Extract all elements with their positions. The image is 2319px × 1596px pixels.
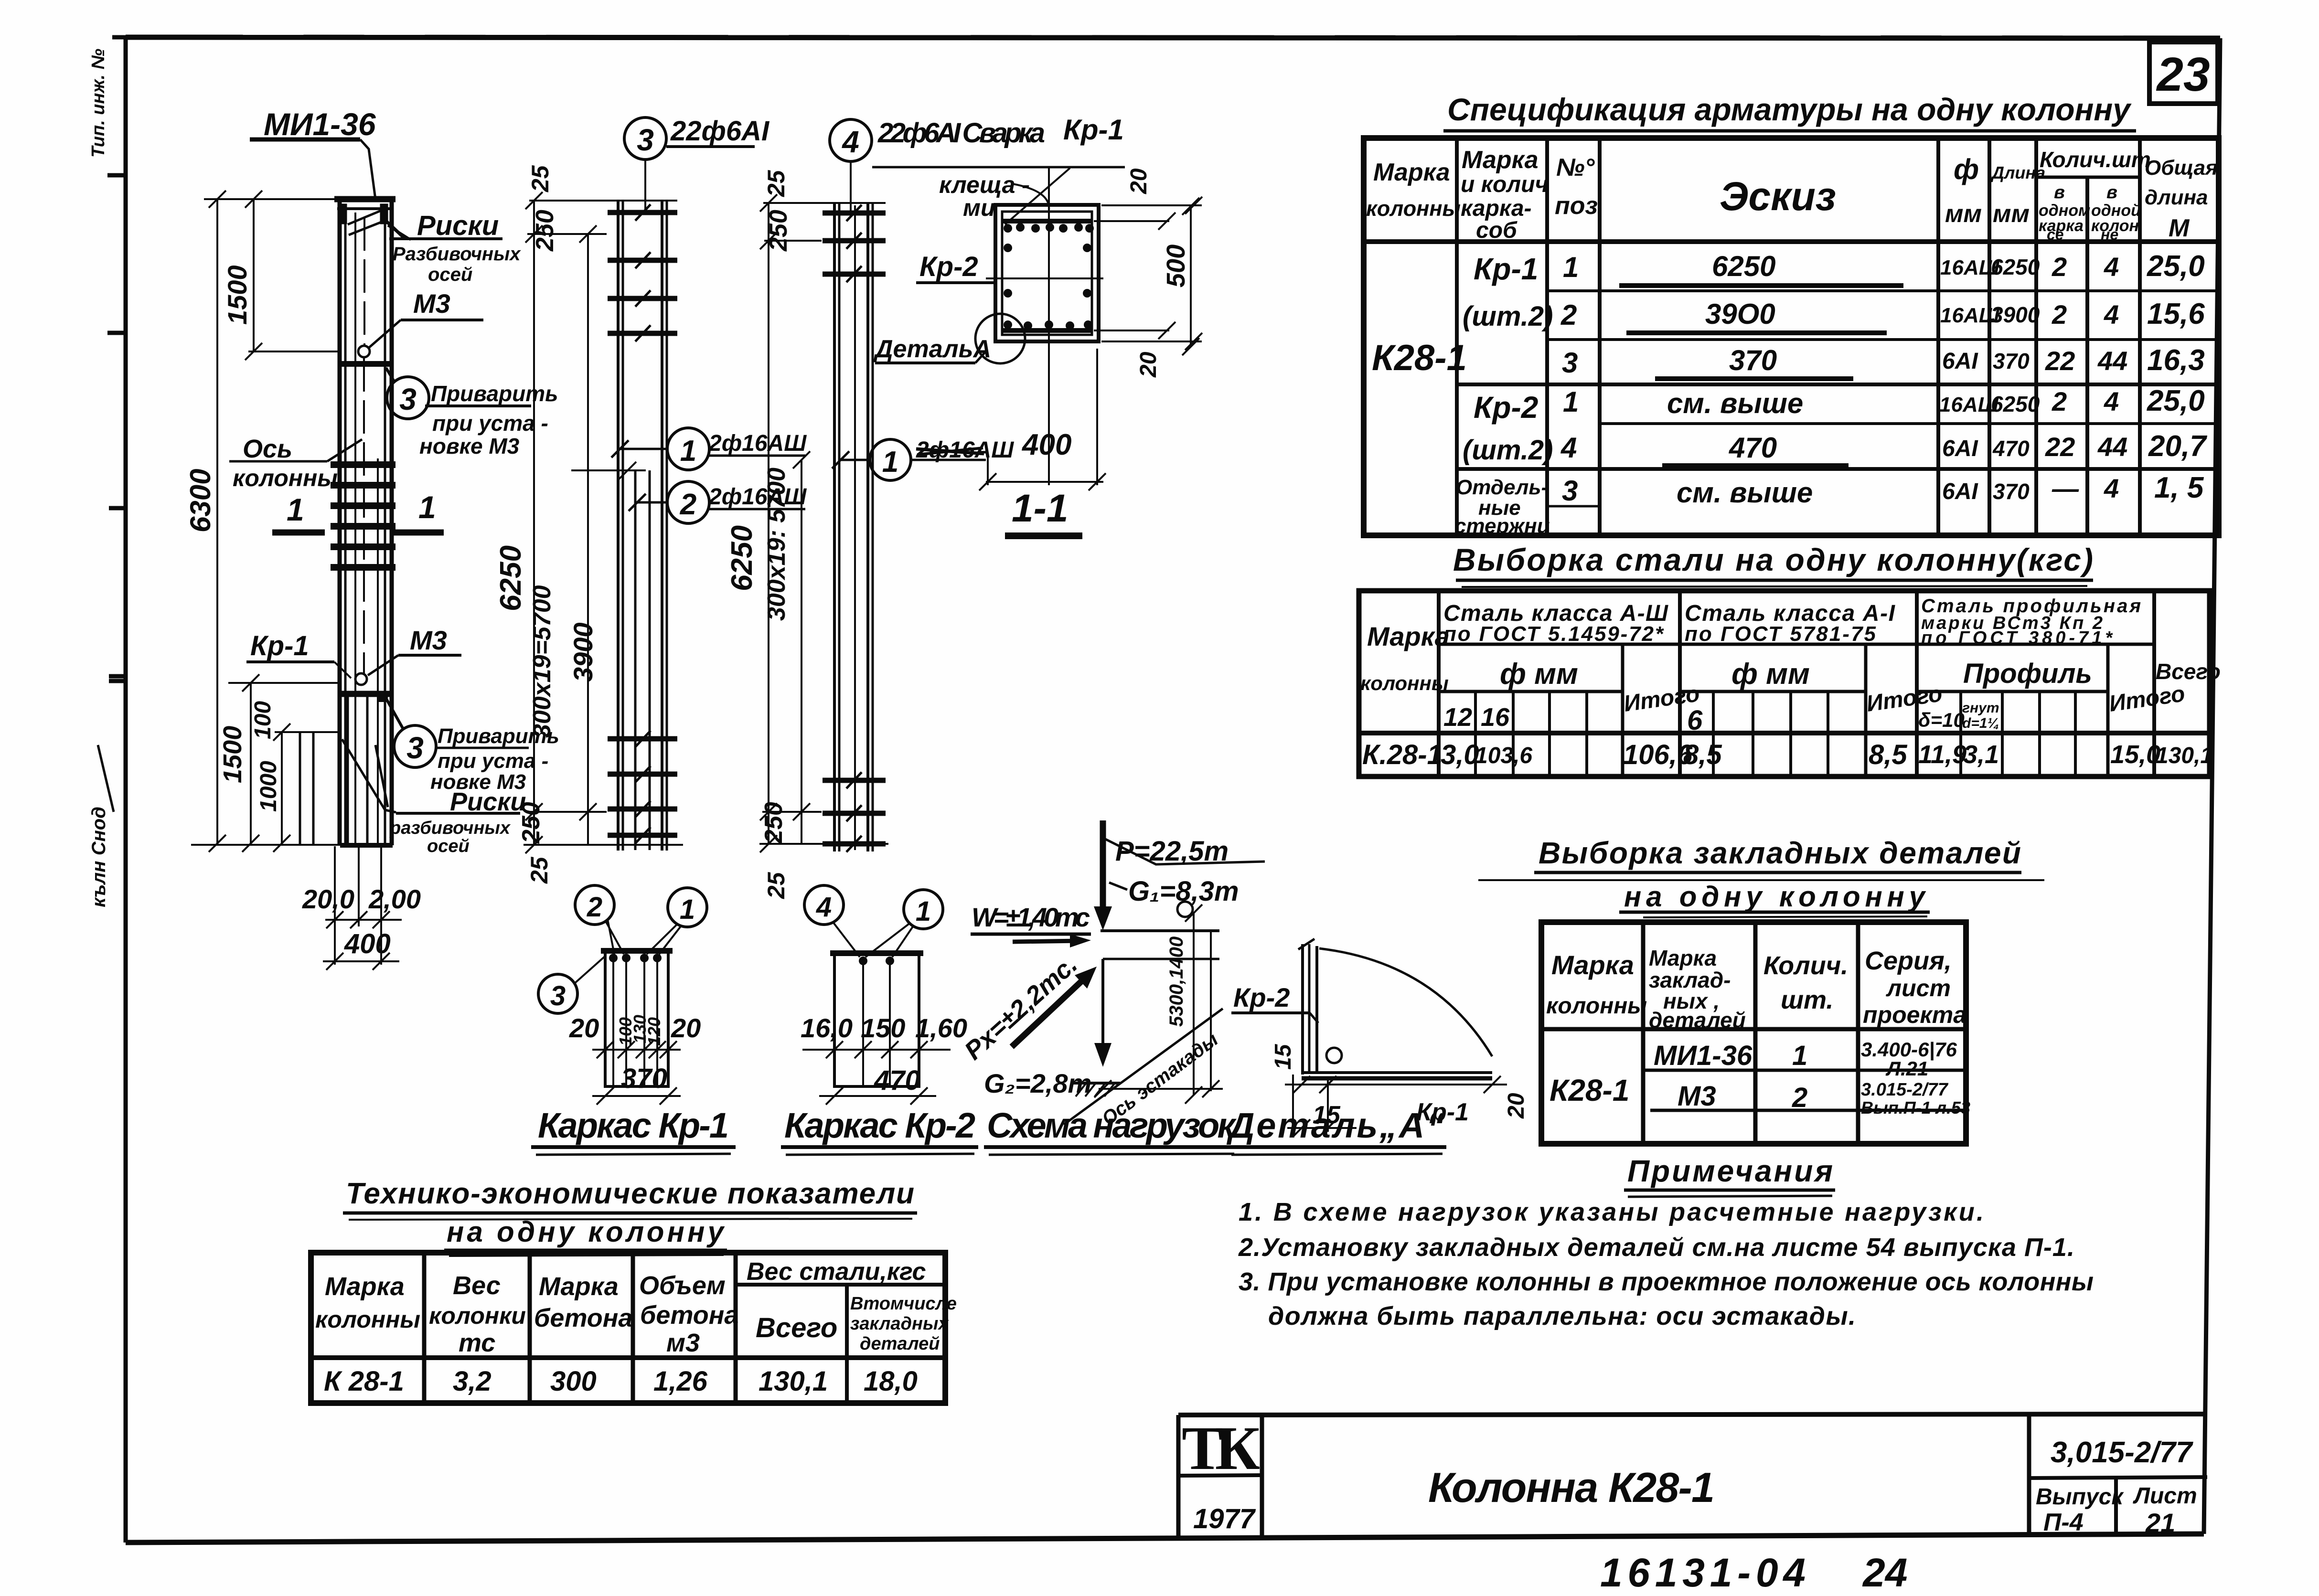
svg-text:см. выше: см. выше: [1677, 477, 1813, 509]
caption: Karkas Kr-2: [781, 1106, 978, 1155]
svg-text:деталей: деталей: [1649, 1008, 1746, 1032]
label Kr-1 cage: [246, 630, 351, 678]
svg-text:Колонна К28-1: Колонна К28-1: [1428, 1464, 1715, 1511]
load schema: G2 label and ground hatch: [984, 1068, 1120, 1098]
svg-text:250: 250: [760, 802, 788, 844]
svg-text:Объем: Объем: [639, 1271, 726, 1300]
section dim 500 right: [1182, 198, 1199, 355]
svg-text:2ф16АШ: 2ф16АШ: [708, 484, 807, 510]
svg-text:1: 1: [1563, 251, 1579, 283]
svg-text:400: 400: [344, 928, 391, 959]
svg-text:шт.: шт.: [1781, 986, 1833, 1014]
svg-text:разбивочных: разбивочных: [389, 818, 511, 838]
svg-text:6250: 6250: [1712, 250, 1775, 282]
svg-text:ми: ми: [963, 194, 995, 221]
svg-text:1500: 1500: [222, 265, 252, 325]
svg-text:1: 1: [1792, 1040, 1807, 1071]
detail A: dimensions: [1285, 1075, 1507, 1137]
page number box 23: [2149, 42, 2218, 104]
TEP table grid: [311, 1253, 945, 1403]
svg-text:М3: М3: [413, 288, 450, 319]
svg-text:МИ1-36: МИ1-36: [264, 106, 376, 142]
svg-text:Л.21: Л.21: [1885, 1057, 1928, 1080]
svg-text:44: 44: [2097, 432, 2127, 462]
svg-text:осей: осей: [428, 264, 472, 285]
svg-text:4: 4: [841, 125, 859, 159]
svg-text:1: 1: [287, 492, 304, 527]
svg-text:250: 250: [517, 802, 545, 844]
svg-text:22: 22: [2045, 346, 2075, 376]
svg-text:Каркас Кр-1: Каркас Кр-1: [538, 1106, 729, 1145]
caption: load schema: [984, 1106, 1238, 1155]
Kr-1 dimension chain 6250 / 300x19=5700 / 3900: [524, 192, 683, 853]
svg-text:4: 4: [2104, 386, 2119, 416]
svg-text:3: 3: [1562, 347, 1578, 379]
svg-text:Спецификация арматуры на одну: Спецификация арматуры на одну колонну: [1447, 92, 2132, 127]
svg-text:Марка: Марка: [1551, 950, 1634, 980]
svg-text:500: 500: [1162, 245, 1190, 287]
svg-text:20,7: 20,7: [2148, 430, 2207, 463]
svg-text:100: 100: [250, 701, 276, 739]
notes title: [1624, 1154, 1835, 1197]
svg-text:1: 1: [680, 435, 696, 468]
svg-text:Марка: Марка: [539, 1272, 619, 1301]
svg-text:3: 3: [406, 731, 424, 765]
svg-text:Длина: Длина: [1990, 163, 2045, 182]
svg-text:130,1: 130,1: [2156, 743, 2213, 768]
svg-text:мм: мм: [1945, 200, 1982, 228]
svg-text:120: 120: [644, 1017, 664, 1046]
svg-text:15: 15: [1271, 1043, 1296, 1070]
svg-text:3,1: 3,1: [1963, 740, 1999, 769]
specification table value columns: [1939, 250, 2207, 504]
plan Kr-2 dimensions: [802, 1041, 951, 1105]
svg-text:колонны: колонны: [315, 1306, 420, 1333]
svg-text:должна быть параллельна: оси э: должна быть параллельна: оси эстакады.: [1268, 1302, 1856, 1330]
detail A: Kr-2 label: [1231, 982, 1318, 1023]
callout 3 with bar mark 22f6AI: [624, 116, 770, 212]
svg-text:Схема нагрузок: Схема нагрузок: [987, 1106, 1237, 1145]
svg-text:2: 2: [2052, 299, 2067, 330]
svg-text:Разбивочных: Разбивочных: [393, 244, 521, 265]
embedded parts table texts: [1546, 946, 1970, 1117]
svg-text:22ф6АІ Сварка: 22ф6АІ Сварка: [877, 117, 1045, 149]
svg-text:25: 25: [763, 170, 790, 197]
section centerlines: [1048, 168, 1050, 341]
callout 1 on Kr-2: [832, 437, 1014, 480]
section dim 400 bottom: [979, 341, 1106, 490]
svg-text:24: 24: [1862, 1550, 1907, 1595]
svg-text:1,26: 1,26: [653, 1366, 708, 1397]
svg-text:К.28-1: К.28-1: [1362, 739, 1443, 770]
svg-text:16131-04: 16131-04: [1600, 1550, 1806, 1595]
svg-text:6300: 6300: [184, 469, 216, 532]
svg-text:16АШ: 16АШ: [1939, 393, 1999, 416]
svg-text:МИ1-36: МИ1-36: [1654, 1040, 1753, 1071]
svg-text:К28-1: К28-1: [1372, 338, 1467, 378]
svg-text:Выборка стали на одну колонну(: Выборка стали на одну колонну(кгс): [1453, 542, 2093, 577]
label Riski bottom: [389, 787, 526, 856]
svg-text:470: 470: [874, 1065, 920, 1096]
svg-text:16: 16: [1481, 703, 1510, 732]
svg-text:2.Установку закладных деталей: 2.Установку закладных деталей см.на лист…: [1238, 1233, 2074, 1262]
steel table header texts: [1360, 596, 2221, 736]
callout 2 on plan Kr-1: [575, 885, 624, 954]
svg-text:20: 20: [1136, 351, 1161, 378]
svg-text:Кр-2: Кр-2: [1474, 390, 1538, 425]
column axis dash line: [363, 217, 365, 345]
svg-text:П-4: П-4: [2043, 1509, 2084, 1536]
svg-text:δ=10: δ=10: [1918, 709, 1965, 731]
svg-text:закладных: закладных: [850, 1314, 949, 1334]
svg-text:стержни: стержни: [1454, 514, 1550, 538]
svg-text:Серия,: Серия,: [1865, 947, 1952, 975]
dimension chain 1500/1000/100 bottom: [228, 674, 340, 852]
svg-text:6250: 6250: [726, 525, 759, 591]
svg-text:4: 4: [2104, 473, 2119, 503]
svg-text:Вес: Вес: [453, 1271, 501, 1300]
svg-text:3,015-2/77: 3,015-2/77: [2051, 1436, 2193, 1469]
svg-text:Всего: Всего: [756, 1312, 837, 1343]
svg-text:300х19: 5700: 300х19: 5700: [763, 468, 791, 621]
svg-text:(шт.2): (шт.2): [1463, 435, 1553, 466]
svg-text:се: се: [2047, 226, 2064, 243]
callout 3 lower: [386, 698, 559, 794]
svg-text:1-1: 1-1: [1012, 487, 1069, 530]
svg-text:300х19=5700: 300х19=5700: [528, 585, 556, 738]
label MI1-36: [250, 106, 376, 199]
svg-text:Марка: Марка: [1373, 159, 1450, 186]
svg-text:по ГОСТ 5781-75: по ГОСТ 5781-75: [1685, 622, 1876, 646]
svg-text:3: 3: [550, 980, 566, 1011]
svg-text:—: —: [2052, 473, 2079, 503]
title: specification of reinforcement: [1443, 92, 2136, 138]
svg-text:3,2: 3,2: [453, 1366, 492, 1397]
steel table data row: [1362, 739, 2213, 770]
svg-text:20: 20: [569, 1013, 599, 1043]
load schema: trestle axis diagonal: [1064, 1009, 1223, 1129]
load schema: W label: [971, 902, 1091, 947]
svg-text:гнут: гнут: [1962, 700, 1999, 716]
Kr-2 dimension chain 6250 / 300x19=5700: [759, 194, 888, 852]
svg-text:2ф16АШ: 2ф16АШ: [708, 431, 807, 456]
svg-text:бетона: бетона: [534, 1304, 632, 1332]
svg-text:370: 370: [621, 1063, 667, 1094]
svg-text:106,6: 106,6: [1623, 739, 1693, 770]
stirrup weld marks mid column: [331, 465, 395, 567]
svg-text:P=22,5т: P=22,5т: [1115, 836, 1229, 867]
svg-text:1: 1: [680, 894, 695, 925]
svg-text:Риски: Риски: [417, 210, 499, 241]
svg-text:длина: длина: [2145, 186, 2208, 209]
svg-text:М: М: [2169, 214, 2190, 242]
label M3 lower with weld circle: [340, 625, 461, 702]
cage Kr-1 top stirrups: [608, 213, 677, 333]
callout 2 pos bars 2f16AIII: [629, 481, 807, 523]
callout 1 on plan Kr-1: [647, 888, 707, 954]
svg-text:Кр-1: Кр-1: [250, 630, 309, 661]
svg-text:4: 4: [816, 892, 832, 923]
svg-text:осей: осей: [427, 836, 470, 856]
svg-text:470: 470: [1729, 432, 1777, 464]
svg-text:25,0: 25,0: [2147, 384, 2205, 417]
svg-text:21: 21: [2145, 1508, 2175, 1538]
svg-text:8,5: 8,5: [1683, 739, 1722, 770]
svg-text:Тип. инж. №: Тип. инж. №: [88, 49, 108, 158]
fold tick marks on left margin: [107, 37, 126, 681]
load schema: dim 5300,1400: [1166, 902, 1202, 1104]
svg-text:Марка: Марка: [325, 1272, 405, 1301]
svg-text:колонны: колонны: [1360, 672, 1449, 694]
section dim 20 top right: [1094, 197, 1202, 230]
svg-text:Ось: Ось: [243, 435, 292, 463]
svg-text:бетона: бетона: [640, 1301, 738, 1330]
svg-text:при уста -: при уста -: [432, 411, 548, 436]
bottom dimensions 200 200 400: [323, 846, 402, 970]
svg-text:Деталь„А“: Деталь„А“: [1226, 1106, 1444, 1145]
dimension chain 1500 top: [245, 191, 340, 360]
svg-text:ДетальА: ДетальА: [873, 335, 991, 363]
svg-text:6АІ: 6АІ: [1942, 349, 1978, 374]
svg-text:20: 20: [671, 1013, 701, 1043]
svg-text:Втомчисле: Втомчисле: [850, 1294, 957, 1314]
svg-text:Лист: Лист: [2133, 1483, 2197, 1509]
svg-text:20,0: 20,0: [302, 884, 354, 914]
svg-text:не: не: [2101, 226, 2118, 243]
svg-text:Кр-2: Кр-2: [1233, 982, 1290, 1012]
label axis of column: [229, 435, 362, 491]
svg-text:Технико-экономические показате: Технико-экономические показатели: [346, 1177, 914, 1210]
svg-text:колонны: колонны: [1546, 993, 1647, 1019]
svg-text:4: 4: [2104, 299, 2119, 330]
corner anchor plates at column top: [340, 204, 388, 235]
svg-text:2: 2: [1792, 1082, 1807, 1113]
steel table grid: [1359, 591, 2210, 777]
svg-text:Эскиз: Эскиз: [1720, 174, 1836, 219]
svg-text:соб: соб: [1476, 218, 1518, 243]
svg-text:25: 25: [763, 872, 790, 899]
svg-text:лист: лист: [1886, 975, 1951, 1001]
svg-text:6250: 6250: [494, 545, 527, 611]
TEP table texts: [315, 1258, 957, 1397]
svg-text:проекта: проекта: [1863, 1001, 1966, 1028]
svg-text:ф мм: ф мм: [1731, 658, 1810, 691]
title: technical-economic indicators: [343, 1177, 917, 1256]
svg-text:м3: м3: [666, 1329, 700, 1357]
svg-text:ТК: ТК: [1182, 1414, 1260, 1483]
svg-text:6АІ: 6АІ: [1942, 436, 1978, 461]
svg-text:2: 2: [2052, 252, 2067, 282]
svg-text:3: 3: [1562, 475, 1578, 507]
load schema: force P arrow: [1094, 820, 1265, 930]
label M3 upper with weld circle: [340, 288, 483, 364]
svg-text:1: 1: [882, 446, 898, 479]
svg-text:мм: мм: [1993, 200, 2030, 228]
svg-text:6: 6: [1687, 705, 1703, 736]
svg-text:Всего: Всего: [2156, 659, 2221, 684]
cage Kr-1 bottom stirrups: [608, 739, 677, 835]
svg-text:1: 1: [418, 489, 436, 525]
cage Kr-2 bottom stirrups: [823, 780, 886, 844]
sketch dimension underlines: [1619, 286, 1903, 466]
title block frame: [1178, 1414, 2207, 1540]
svg-text:2,00: 2,00: [368, 884, 421, 914]
svg-text:16,3: 16,3: [2147, 344, 2205, 377]
svg-text:по ГОСТ 5.1459-72*: по ГОСТ 5.1459-72*: [1443, 622, 1664, 646]
label Detail A: [873, 335, 991, 363]
svg-text:370: 370: [1993, 349, 2030, 373]
svg-text:6АІ: 6АІ: [1942, 479, 1978, 504]
svg-text:25: 25: [526, 856, 553, 884]
svg-text:4: 4: [1560, 432, 1577, 464]
specification table header texts: [1366, 146, 2218, 243]
svg-text:6250: 6250: [1991, 392, 2040, 416]
svg-text:Колич.: Колич.: [1763, 951, 1848, 980]
svg-text:Профиль: Профиль: [1963, 658, 2092, 689]
svg-text:250: 250: [531, 210, 559, 252]
label Kr-2 of section: [916, 251, 996, 283]
section marks 1-1 on column: [272, 489, 444, 532]
svg-text:2: 2: [680, 488, 696, 521]
svg-text:(шт.2): (шт.2): [1463, 301, 1553, 332]
caption: detail A: [1226, 1106, 1446, 1155]
svg-text:Приварить: Приварить: [431, 381, 558, 406]
svg-text:15,6: 15,6: [2147, 298, 2205, 330]
svg-text:20: 20: [1126, 168, 1152, 194]
svg-text:22ф6АІ: 22ф6АІ: [670, 116, 770, 147]
plan Kr-1 dimensions: [592, 1041, 681, 1105]
diagonal leaders to bottom corner: [342, 739, 396, 812]
svg-text:Кр-1: Кр-1: [1474, 252, 1538, 286]
svg-text:колонки: колонки: [429, 1302, 526, 1329]
svg-text:поз: поз: [1555, 192, 1598, 220]
callout 3 on plan Kr-1: [538, 956, 605, 1013]
svg-text:колонны: колонны: [233, 465, 338, 491]
svg-text:1,60: 1,60: [915, 1013, 967, 1043]
section 1-1 square outline: [995, 205, 1099, 341]
svg-text:11,9: 11,9: [1918, 740, 1966, 769]
callout 4 with bar mark 22f6AI svarka: [830, 114, 1125, 224]
svg-text:5300,1400: 5300,1400: [1166, 936, 1187, 1027]
detail A circle on section corner: [975, 314, 1025, 363]
svg-text:23: 23: [2156, 48, 2210, 101]
svg-text:370: 370: [1729, 344, 1777, 376]
svg-text:6250: 6250: [1991, 255, 2040, 279]
plan view cage Kr-2: [830, 953, 923, 1086]
svg-text:Отдель-: Отдель-: [1456, 476, 1548, 499]
embedded parts table grid: [1541, 922, 1966, 1144]
svg-text:1: 1: [1563, 386, 1579, 418]
svg-text:d=1¼: d=1¼: [1962, 715, 1999, 731]
svg-text:1500: 1500: [218, 726, 247, 783]
svg-text:2: 2: [1560, 299, 1577, 331]
svg-text:Вып.П-1 л.53: Вып.П-1 л.53: [1861, 1098, 1970, 1117]
stirrup slash ticks Kr-2: [846, 205, 862, 852]
svg-text:Выпуск: Выпуск: [2036, 1484, 2124, 1510]
label Riski top: [382, 210, 521, 285]
cage Kr-2 top stirrups: [823, 213, 886, 274]
svg-text:в: в: [2106, 182, 2117, 202]
svg-text:№°: №°: [1556, 154, 1595, 181]
svg-text:300: 300: [550, 1366, 597, 1397]
svg-text:25,0: 25,0: [2147, 250, 2205, 283]
svg-text:470: 470: [1992, 436, 2030, 461]
svg-text:Кр-1: Кр-1: [1063, 114, 1124, 146]
notes text: [1238, 1198, 2094, 1330]
svg-text:Марка: Марка: [1649, 946, 1717, 970]
svg-text:М3: М3: [410, 625, 447, 655]
svg-text:8,5: 8,5: [1869, 739, 1907, 770]
svg-text:и колич: и колич: [1461, 172, 1548, 197]
cage Kr-1 elevation: main bars pos.1: [618, 201, 667, 851]
svg-text:кълн Снод: кълн Снод: [88, 807, 109, 907]
callout 3 upper: weld during M3 installation: [386, 368, 558, 458]
svg-text:18,0: 18,0: [864, 1366, 918, 1397]
svg-text:Выборка закладных деталей: Выборка закладных деталей: [1539, 836, 2021, 870]
svg-text:130,1: 130,1: [759, 1366, 828, 1397]
svg-text:3. При установке колонны в про: 3. При установке колонны в проектное пол…: [1239, 1267, 2094, 1296]
svg-text:см. выше: см. выше: [1667, 387, 1803, 419]
stirrup slash ticks Kr-1: [635, 204, 651, 843]
svg-text:22: 22: [2045, 432, 2075, 462]
svg-text:Колич.шт: Колич.шт: [2040, 147, 2151, 172]
callout 1 pos bars 2f16AIII: [611, 428, 807, 470]
svg-text:Марка: Марка: [1462, 146, 1539, 174]
svg-text:2: 2: [587, 892, 602, 923]
plan view cage Kr-1: [601, 950, 673, 1086]
load schema: column axis frame: [1094, 931, 1223, 1097]
load schema: Px diagonal arrow: [959, 950, 1097, 1065]
svg-text:370: 370: [1993, 479, 2030, 504]
svg-text:новке М3: новке М3: [419, 434, 520, 458]
section dim 20 bottom right: [1094, 322, 1202, 350]
caption: Karkas Kr-1: [531, 1106, 736, 1155]
svg-text:3,0: 3,0: [1441, 739, 1479, 770]
svg-text:Примечания: Примечания: [1627, 1154, 1833, 1188]
svg-text:3900: 3900: [568, 622, 598, 682]
section 1-1 rebar dots: [1004, 223, 1094, 330]
svg-text:1, 5: 1, 5: [2154, 471, 2204, 504]
svg-text:3900: 3900: [1991, 302, 2040, 327]
specification table row data: [1372, 250, 1813, 538]
title: embedded parts selection: [1478, 836, 2044, 917]
svg-text:250: 250: [765, 210, 792, 252]
callout 4 on plan Kr-2: [804, 885, 860, 957]
svg-text:ф: ф: [1954, 153, 1979, 185]
svg-text:3.015-2/77: 3.015-2/77: [1861, 1080, 1949, 1100]
svg-text:4: 4: [2104, 252, 2119, 282]
svg-text:12: 12: [1443, 703, 1472, 732]
svg-text:деталей: деталей: [860, 1334, 940, 1354]
svg-text:1977: 1977: [1193, 1503, 1256, 1534]
svg-text:15,0: 15,0: [2110, 740, 2160, 769]
svg-text:2: 2: [2052, 386, 2067, 416]
svg-text:44: 44: [2097, 346, 2127, 376]
svg-text:39О0: 39О0: [1705, 298, 1775, 330]
svg-text:ф мм: ф мм: [1500, 658, 1578, 691]
svg-text:М3: М3: [1678, 1081, 1716, 1112]
svg-text:103,6: 103,6: [1475, 743, 1532, 768]
cage Kr-2 elevation: main bars: [834, 202, 873, 851]
svg-text:3: 3: [637, 123, 654, 157]
title: steel selection per column: [1453, 542, 2093, 587]
svg-text:1: 1: [916, 896, 931, 927]
dimension chain 6300: [191, 191, 348, 852]
column bottom cage bars: [300, 696, 367, 845]
svg-text:Вес стали,кгс: Вес стали,кгс: [747, 1258, 926, 1286]
callout 1 on plan Kr-2: [866, 890, 943, 957]
specification table grid: [1364, 138, 2219, 535]
